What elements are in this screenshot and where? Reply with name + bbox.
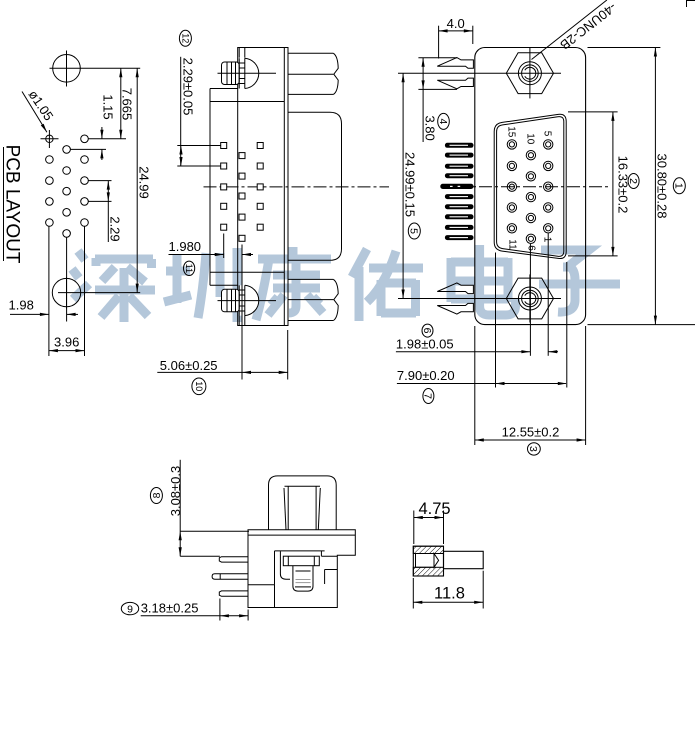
svg-text:10: 10 (524, 133, 535, 145)
svg-text:3: 3 (527, 446, 539, 452)
circled 4 balloon (438, 113, 450, 129)
bottom view: center screw plug (283, 556, 319, 566)
svg-text:PCB LAYOUT: PCB LAYOUT (2, 145, 23, 264)
dimension 24.99 (vertical, PCB) (136, 68, 138, 292)
dimension 24.99+-0.15 (screw span) (402, 73, 404, 298)
circled 5 balloon (408, 223, 420, 239)
circled 8 balloon (150, 488, 162, 504)
side view: bracket screw slot top (238, 48, 240, 58)
svg-text:3.96: 3.96 (54, 335, 79, 350)
svg-text:11.8: 11.8 (434, 585, 465, 603)
svg-text:1.98: 1.98 (9, 298, 34, 313)
front view: D-face inner outline (497, 117, 564, 257)
side view: top jackscrew head (245, 58, 259, 88)
PCB LAYOUT title underline (3, 147, 5, 261)
circled 3 balloon (528, 443, 541, 455)
circled 1 balloon (673, 178, 685, 194)
watermark text shen-zhen-kang-you-dian-zi (light blue hanzi strokes) (72, 245, 620, 322)
circled 7 balloon (423, 389, 434, 404)
front view: top jackscrew hex boss (506, 53, 553, 94)
detail view: screw shaft (444, 551, 484, 568)
dimension 5.06+-0.25 (side view) (287, 330, 289, 380)
bottom view: handle inner tab (285, 485, 321, 487)
circled 12 balloon (179, 30, 191, 46)
svg-text:5: 5 (408, 228, 420, 234)
PCB pad holes left column (46, 156, 54, 164)
dimension 3.18+-0.25 (pin offset) (219, 599, 221, 621)
side view: solder pins right column (squares) (257, 143, 263, 149)
svg-text:7: 7 (422, 393, 434, 399)
PCB pad holes right column (81, 135, 89, 143)
dimension 1.98 (horizontal, PCB bottom) (48, 227, 50, 357)
circled 9 balloon (121, 602, 138, 614)
svg-text:9: 9 (127, 603, 133, 615)
svg-text:24.99: 24.99 (136, 166, 151, 199)
dimension 7.665 (vertical) (120, 68, 122, 139)
svg-text:2.29: 2.29 (108, 216, 123, 241)
side view: top jackscrew axis line (218, 72, 277, 74)
bottom view: cable clamp handle (269, 476, 337, 530)
detail view: standoff outline (413, 546, 443, 576)
front view: terminal comb stack (445, 143, 474, 148)
svg-text:1: 1 (542, 237, 553, 243)
dimension 3.80 (latch pair height) (418, 57, 457, 59)
bottom view: body top parting line (248, 534, 355, 536)
svg-text:1.980: 1.980 (169, 239, 202, 254)
svg-text:11: 11 (506, 239, 517, 250)
side view: D-shell barrel (288, 112, 342, 260)
dimension 2.29+-0.05 (side view pin pitch) (180, 57, 182, 166)
front view: top screw crosshair (398, 72, 561, 74)
side view: top rivet dome (245, 58, 259, 88)
svg-text:11: 11 (184, 264, 194, 273)
front view: EMI latch bottom pair (437, 283, 473, 294)
svg-text:4.0: 4.0 (447, 16, 465, 31)
dimension 7.90+-0.20 (face extension span) (495, 253, 497, 388)
side view: solder pins middle column (squares) (239, 153, 245, 159)
svg-text:3.08±0.3: 3.08±0.3 (168, 466, 183, 517)
svg-text:6: 6 (421, 328, 433, 334)
side view: bottom screw threaded shank (238, 285, 240, 315)
front view: centerline (457, 186, 611, 188)
bottom view: PCB pin 3 (219, 591, 248, 596)
side view: solder pins left column (squares) (221, 143, 227, 149)
front view: top jackscrew hole (518, 62, 541, 85)
side view: top screw threaded shank (238, 58, 240, 88)
dimension 1.98+-0.05 (screw to pin row) (529, 244, 531, 356)
detail view: threaded cavity (416, 553, 435, 555)
side view: top hex standoff boss (288, 52, 333, 54)
front view: bottom screw crosshair (398, 298, 561, 300)
dimension 2.29 (vertical, PCB) (88, 180, 111, 182)
svg-text:10: 10 (194, 381, 204, 391)
svg-text:1.98±0.05: 1.98±0.05 (396, 336, 454, 351)
svg-text:1.15: 1.15 (100, 94, 115, 119)
side view: bracket screw slot bottom (238, 315, 240, 325)
bottom view: PCB pin 1 (219, 557, 248, 562)
svg-text:5.06±0.25: 5.06±0.25 (160, 358, 218, 373)
bottom view: connector body outline (248, 530, 355, 608)
dimension 4.75 (standoff width) (413, 511, 415, 545)
front view: D-face outer outline (494, 114, 566, 258)
circled 6 balloon (422, 324, 433, 337)
circled 2 balloon (628, 174, 639, 189)
bottom view: bottom-left notch (248, 584, 275, 586)
front view: bottom jackscrew hex boss (506, 278, 553, 319)
PCB mounting hole bottom (circle with crosshair) (52, 278, 80, 306)
dimension 16.33+-0.2 (D-face length) (568, 111, 618, 113)
front view: contact holes column pins 10-6 (526, 151, 535, 160)
svg-text:3.80: 3.80 (422, 115, 437, 140)
dimension 3.96 (horizontal, PCB bottom) (49, 350, 85, 352)
svg-text:12.55±0.2: 12.55±0.2 (502, 425, 560, 440)
side view: centerline (204, 186, 390, 188)
svg-text:4.75: 4.75 (418, 500, 450, 518)
svg-text:15: 15 (505, 126, 516, 138)
bottom view: interior cavity lines (275, 550, 325, 552)
side view: bottom jackscrew head (245, 285, 259, 315)
svg-text:12: 12 (180, 33, 190, 43)
front view: shell outline rectangle (475, 48, 586, 325)
svg-text:7.665: 7.665 (120, 88, 135, 121)
svg-text:24.99±0.15: 24.99±0.15 (403, 152, 418, 217)
extension line from bottom mounting hole (85, 292, 140, 294)
svg-text:8: 8 (151, 492, 163, 498)
side view: insulator body (209, 89, 211, 286)
svg-text:3.18±0.25: 3.18±0.25 (141, 600, 199, 615)
side view: bottom rivet dome (245, 285, 259, 315)
circled 10 balloon (192, 378, 206, 395)
dimension 12.55+-0.2 (shell width) (474, 326, 476, 445)
svg-text:30.80±0.28: 30.80±0.28 (655, 154, 670, 219)
PCB pad holes middle column (63, 146, 71, 154)
extension line from top mounting hole (86, 67, 141, 69)
dimension 3.08+-0.3 (body top to pin) (180, 530, 249, 532)
front view: EMI latch top pair (437, 58, 473, 69)
front view: contact holes column pins 15-11 (507, 140, 516, 149)
front view: contact holes column pins 5-1 (544, 140, 553, 149)
side view: bottom hex standoff boss (288, 278, 333, 280)
bottom view: PCB pin 2 (212, 574, 248, 579)
dimension 30.80+-0.28 (shell length) (588, 47, 661, 49)
circled 11 balloon (184, 261, 195, 275)
svg-text:5: 5 (542, 131, 553, 137)
leader and label dia 1.05 (22, 92, 47, 133)
drawing frame corner mark (top right) (686, 0, 688, 7)
dimension 1.980 (side view) (223, 234, 225, 259)
PCB pad hole with crosshair (pin 5, dia 1.05) (46, 135, 53, 142)
side view: bottom jackscrew axis line (218, 300, 277, 302)
svg-text:4: 4 (437, 118, 449, 124)
svg-text:1: 1 (673, 183, 685, 189)
PCB mounting hole top (circle with crosshair) (53, 55, 81, 83)
side view: mounting bracket flange plate (238, 48, 288, 326)
svg-text:7.90±0.20: 7.90±0.20 (397, 368, 455, 383)
dimension 4.0 (latch depth) (438, 26, 440, 59)
dimension 11.8 (overall length) (412, 578, 414, 609)
front view: bottom jackscrew hole (518, 287, 541, 310)
dimension 1.15 (vertical) (88, 138, 126, 140)
svg-text:16.33±0.2: 16.33±0.2 (616, 156, 631, 214)
thread callout leader 4-40UNC-2B (532, 0, 607, 60)
svg-text:2.29±0.05: 2.29±0.05 (181, 58, 196, 116)
